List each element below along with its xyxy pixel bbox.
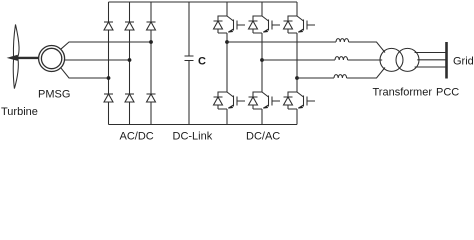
filter inductor L3 <box>334 75 347 78</box>
svg-text:Turbine: Turbine <box>1 106 38 118</box>
IGBT cell S2 (upper): IGBT transistor <box>262 16 280 33</box>
wire: PMSG phase a (top) to rectifier leg 3 <box>61 42 151 49</box>
generator PMSG outer circle <box>39 46 65 72</box>
inverter leg 3: wire to DC- rail <box>296 109 298 125</box>
IGBT cell S6 (lower): IGBT transistor <box>297 92 315 109</box>
svg-text:DC-Link: DC-Link <box>173 131 213 143</box>
svg-text:AC/DC: AC/DC <box>120 131 154 143</box>
wire: inverter phase 2 output to filter <box>262 59 335 61</box>
inverter leg 1: wire from DC+ rail <box>226 2 228 16</box>
inverter leg 1: wire to DC- rail <box>226 109 228 125</box>
junction node: inverter leg 2 output <box>260 58 264 62</box>
turbine hub / nose cone <box>9 56 18 61</box>
wire: inverter phase 1 output to filter <box>227 41 336 43</box>
inverter leg 2: midpoint wire <box>261 33 263 92</box>
IGBT cell S4 (lower): freewheel diode <box>214 92 228 109</box>
wire: L3 to transformer <box>347 68 385 79</box>
rectifier lower diode D6 <box>147 94 156 102</box>
wire: inverter phase 3 output to filter <box>297 77 334 79</box>
rectifier upper diode D3 <box>147 22 156 30</box>
wire: PMSG phase c (bottom) to rectifier leg 1 <box>61 68 109 78</box>
generator PMSG inner circle <box>41 48 61 68</box>
IGBT cell S4 (lower): IGBT transistor <box>227 92 245 109</box>
IGBT cell S3 (upper): freewheel diode <box>284 16 298 33</box>
IGBT cell S2 (upper): freewheel diode <box>249 16 263 33</box>
wire: PMSG phase b (middle) to rectifier leg 2 <box>65 59 130 61</box>
wire: L2 to transformer <box>348 59 383 61</box>
PCC bus bar <box>445 42 448 79</box>
turbine shaft wire <box>17 57 39 59</box>
svg-text:DC/AC: DC/AC <box>246 131 280 143</box>
rectifier lower diode D5 <box>125 94 134 102</box>
inverter leg 3: wire from DC+ rail <box>296 2 298 16</box>
rectifier leg 2 wire <box>129 2 131 125</box>
wire: transformer to PCC phase 1 <box>415 52 446 54</box>
inverter leg 3: midpoint wire <box>296 33 298 92</box>
rectifier leg 3 wire <box>150 2 152 125</box>
IGBT cell S1 (upper): IGBT transistor <box>227 16 245 33</box>
junction node: phase b / leg 2 <box>128 58 132 62</box>
svg-text:Grid: Grid <box>453 56 474 68</box>
inverter leg 1: midpoint wire <box>226 33 228 92</box>
IGBT cell S5 (lower): IGBT transistor <box>262 92 280 109</box>
IGBT cell S6 (lower): freewheel diode <box>284 92 298 109</box>
junction node: phase c / leg 1 <box>107 76 111 80</box>
DC-link capacitor C plates <box>185 56 194 61</box>
svg-text:PMSG: PMSG <box>38 89 70 101</box>
transformer secondary winding circle <box>396 48 419 71</box>
DC- bottom rail <box>109 124 298 126</box>
wind turbine rotor: lower blade <box>13 58 18 88</box>
junction node: inverter leg 1 output <box>225 40 229 44</box>
rectifier upper diode D2 <box>125 22 134 30</box>
inverter leg 2: wire from DC+ rail <box>261 2 263 16</box>
IGBT cell S3 (upper): IGBT transistor <box>297 16 315 33</box>
transformer primary winding circle <box>380 48 403 71</box>
junction node: phase a / leg 3 <box>149 40 153 44</box>
rectifier upper diode D1 <box>104 22 113 30</box>
DC-link capacitor C wires <box>188 2 190 125</box>
wire: transformer to PCC phase 2 <box>417 59 445 61</box>
DC+ top rail <box>109 1 298 3</box>
wind turbine rotor: upper blade <box>13 25 19 58</box>
svg-text:C: C <box>198 56 206 68</box>
junction node: inverter leg 3 output <box>295 76 299 80</box>
rectifier lower diode D4 <box>104 94 113 102</box>
IGBT cell S1 (upper): freewheel diode <box>214 16 228 33</box>
inverter leg 2: wire to DC- rail <box>261 109 263 125</box>
filter inductor L2 <box>335 57 348 60</box>
wire: transformer to PCC phase 3 <box>415 66 446 68</box>
svg-text:Transformer: Transformer <box>373 87 433 99</box>
wire: L1 to transformer <box>349 42 385 53</box>
IGBT cell S5 (lower): freewheel diode <box>249 92 263 109</box>
filter inductor L1 <box>336 39 349 42</box>
rectifier leg 1 wire <box>108 2 110 125</box>
svg-text:PCC: PCC <box>436 87 459 99</box>
